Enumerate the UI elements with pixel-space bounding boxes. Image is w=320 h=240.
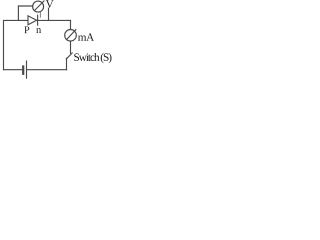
svg-text:P: P [24,25,30,36]
svg-text:V: V [46,0,55,11]
svg-text:n: n [36,25,42,36]
svg-text:Switch: Switch [73,52,99,64]
svg-text:(S): (S) [100,52,112,64]
svg-text:mA: mA [78,32,94,44]
